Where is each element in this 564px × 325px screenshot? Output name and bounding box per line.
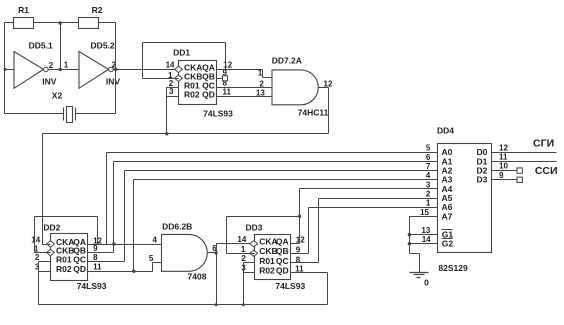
svg-text:74LS93: 74LS93 (77, 281, 107, 291)
svg-text:13: 13 (256, 89, 265, 98)
wire DD2 QA output to gate input 4 (88, 244, 162, 246)
wire to DD5.1 input (5, 69, 15, 71)
svg-text:2: 2 (426, 189, 431, 198)
svg-text:DD3: DD3 (245, 223, 262, 233)
svg-text:R02: R02 (184, 89, 200, 99)
svg-text:3: 3 (426, 180, 431, 189)
wire DD1 feedback left down (142, 43, 144, 79)
node DD1 reset junction (165, 132, 168, 135)
svg-text:X2: X2 (52, 90, 63, 100)
svg-text:7: 7 (426, 162, 431, 171)
svg-text:14: 14 (31, 235, 40, 244)
wire A6 feed vertical (308, 208, 310, 254)
wire DD2 QC output (88, 261, 125, 263)
svg-text:DD1: DD1 (173, 48, 190, 58)
wire DD2 feedback left down (34, 217, 36, 253)
svg-text:10: 10 (499, 162, 508, 171)
svg-text:0: 0 (424, 277, 429, 287)
svg-text:15: 15 (420, 208, 429, 217)
wire DD2 CKA input (43, 244, 51, 246)
ground (410, 273, 430, 288)
svg-text:INV: INV (42, 76, 57, 86)
inverter DD5.1 (14, 40, 57, 88)
svg-text:G2: G2 (442, 239, 454, 249)
node DD3 QA feedback junction (298, 215, 301, 218)
wire A1 feed vertical (113, 162, 115, 253)
wire bottom reset line (39, 304, 328, 306)
svg-text:5: 5 (149, 254, 154, 263)
counter DD3 74LS93 (245, 223, 305, 292)
node G2 junction (408, 242, 411, 245)
wire DD6 output to DD3 CKA (217, 243, 255, 245)
wire address line A4 (300, 188, 438, 190)
wire address line A5 (319, 198, 438, 200)
svg-text:QB: QB (276, 246, 289, 256)
svg-text:5: 5 (426, 144, 431, 153)
svg-text:14: 14 (237, 235, 246, 244)
svg-text:8: 8 (93, 253, 98, 262)
resistor R1 (14, 5, 34, 29)
svg-text:DD4: DD4 (437, 126, 454, 136)
svg-text:14: 14 (422, 235, 431, 244)
wire DD7.2A output down (328, 88, 330, 134)
wire A5 feed vertical (318, 199, 320, 263)
svg-text:R02: R02 (259, 265, 275, 275)
wire address line A1 (114, 161, 438, 163)
node oscillator output (114, 68, 117, 71)
wire into gate input 5 (153, 262, 162, 264)
wire DD3 reset vertical down (243, 263, 245, 305)
wire crystal left (5, 113, 64, 115)
svg-text:3: 3 (35, 263, 40, 272)
wire DD6.2B output (208, 252, 217, 254)
svg-text:1: 1 (258, 68, 263, 77)
inverter DD5.2 (79, 40, 120, 88)
wire DD5.1 out to DD5.2 in (49, 69, 79, 71)
svg-text:R2: R2 (92, 5, 103, 15)
wire DD1 QA output (217, 69, 263, 71)
wire DD3 CKB loop top (227, 216, 300, 218)
svg-text:D3: D3 (477, 175, 488, 185)
node feedback mid (59, 68, 62, 71)
svg-text:DD5.1: DD5.1 (29, 40, 53, 50)
svg-text:82S129: 82S129 (438, 263, 468, 273)
svg-text:QD: QD (276, 265, 289, 275)
wire DD2 feedback top (35, 216, 98, 218)
wire R1-R2 node down (60, 23, 62, 70)
wire DD1 feedback top (143, 42, 226, 44)
wire R2 right (99, 22, 116, 24)
wire DD2 QD output to gate input 5 (88, 271, 153, 273)
node DD6 output junction (214, 251, 217, 254)
open pin square D3 (517, 177, 522, 182)
wire R1 to R2 (34, 22, 79, 24)
svg-text:13: 13 (421, 226, 430, 235)
node inverter DD5.1 input (4, 68, 7, 71)
wire DD2 CKB input (35, 252, 51, 254)
crystal X2 (52, 90, 76, 122)
svg-text:2: 2 (35, 253, 40, 262)
wire address line A2 (125, 170, 438, 172)
svg-text:74LS93: 74LS93 (275, 281, 305, 291)
wire DD6 output jog up (216, 244, 218, 253)
wire ground bracket vertical (409, 217, 411, 254)
wire A4 feed vertical (299, 189, 301, 244)
wire DD1 QB stub (217, 78, 223, 80)
wire gate input 5 jog up (152, 263, 154, 272)
node DD3 reset junction (242, 303, 245, 306)
svg-text:74HC11: 74HC11 (298, 107, 329, 117)
svg-text:14: 14 (166, 60, 175, 69)
svg-text:11: 11 (295, 264, 304, 273)
svg-text:4: 4 (153, 235, 158, 244)
svg-text:11: 11 (499, 153, 508, 162)
svg-text:2: 2 (259, 80, 264, 89)
wire DD1 QC to gate input 2 (217, 87, 273, 89)
open pin square DD1 QB (223, 76, 228, 81)
wire DD3 R02 stub (244, 272, 255, 274)
svg-text:12: 12 (324, 79, 333, 88)
wire into gate input 1 (263, 77, 273, 79)
node G1 junction (408, 233, 411, 236)
svg-text:7408: 7408 (188, 271, 207, 281)
wire DD3 CKB loop up (226, 217, 228, 254)
wire left vertical rail (4, 23, 6, 114)
node DD6 output reset junction (215, 303, 218, 306)
svg-text:СГИ: СГИ (533, 138, 554, 150)
svg-text:R01: R01 (259, 256, 275, 266)
svg-text:QD: QD (202, 89, 215, 99)
wire A3 feed vertical (133, 180, 135, 272)
wire DD1 reset vertical (166, 88, 168, 134)
wire DD6 output down to reset line (216, 253, 218, 305)
svg-text:1: 1 (64, 61, 69, 70)
svg-text:QC: QC (73, 255, 86, 265)
node junction R1-R2 (59, 21, 62, 24)
wire D0 output SGI (492, 152, 557, 154)
svg-text:R02: R02 (56, 264, 72, 274)
wire DD1 R02 stub (167, 96, 179, 98)
wire down to DD2 CKA (42, 134, 44, 245)
svg-text:1: 1 (241, 245, 246, 254)
wire DD3 QD down to reset line (327, 273, 329, 305)
counter DD2 74LS93 (43, 223, 106, 292)
svg-text:74LS93: 74LS93 (203, 108, 233, 118)
wire ground stem (419, 254, 421, 273)
wire crystal right (76, 113, 116, 115)
svg-text:11: 11 (93, 263, 102, 272)
wire address line A3 (134, 179, 438, 181)
wire reset line to DD1 and DD2 clock (43, 133, 329, 135)
wire DD2 R02 stub (39, 271, 51, 273)
wire DD5.2 output to DD1 CKA (114, 69, 179, 71)
wire G2 input (410, 243, 438, 245)
wire A0 feed vertical (106, 153, 108, 245)
svg-text:QC: QC (276, 256, 289, 266)
wire DD7.2A output (319, 87, 329, 89)
wire D3 output (492, 179, 517, 181)
svg-text:R1: R1 (18, 5, 29, 15)
resistor R2 (79, 5, 103, 29)
wire top rail left (5, 22, 14, 24)
svg-text:CKB: CKB (259, 246, 277, 256)
wire bracket to ground stem (410, 253, 420, 255)
wire DD3 QC output (291, 262, 319, 264)
wire DD1 QA feedback up (225, 43, 227, 70)
wire A2 feed vertical (124, 171, 126, 262)
open pin square D2 (517, 168, 522, 173)
svg-text:DD7.2A: DD7.2A (272, 56, 302, 66)
svg-text:INV: INV (106, 76, 121, 86)
svg-text:QA: QA (276, 237, 289, 247)
wire G1 input (410, 234, 438, 236)
svg-text:DD6.2B: DD6.2B (162, 222, 192, 232)
svg-text:9: 9 (499, 171, 504, 180)
wire DD3 CKB loop left (227, 253, 255, 255)
wire DD1 QD to gate input 13 (217, 96, 273, 98)
wire DD3 QB output (291, 253, 309, 255)
counter DD1 74LS93 (173, 48, 233, 119)
wire right vertical rail (115, 23, 117, 114)
svg-text:QD: QD (73, 264, 86, 274)
svg-text:9: 9 (93, 244, 98, 253)
svg-text:A7: A7 (442, 211, 453, 221)
wire address line A6 (309, 207, 438, 209)
svg-text:4: 4 (426, 171, 431, 180)
svg-text:12: 12 (499, 143, 508, 152)
wire DD2 reset vertical down (38, 262, 40, 305)
svg-text:R01: R01 (56, 255, 72, 265)
node QD branch to A3 (132, 270, 135, 273)
wire address line A0 (107, 152, 438, 154)
wire D2 output (492, 170, 517, 172)
wire DD3 QD output (291, 272, 328, 274)
wire DD2 QB output (88, 252, 114, 254)
wire DD3 QA output (291, 243, 300, 245)
svg-text:1: 1 (426, 199, 431, 208)
svg-text:3: 3 (169, 87, 174, 96)
svg-text:DD2: DD2 (43, 223, 60, 233)
svg-text:CKA: CKA (259, 237, 277, 247)
node QB branch to gate input 4 (112, 242, 115, 245)
svg-text:11: 11 (223, 87, 232, 96)
wire DD2 QA feedback up (97, 217, 99, 245)
PROM DD4 82S129 (437, 126, 492, 273)
AND gate DD7.2A 74HC11 (272, 56, 329, 118)
wire QA jog down to gate input 1 (262, 70, 264, 78)
wire D1 output (492, 161, 557, 163)
svg-text:ССИ: ССИ (535, 165, 558, 177)
svg-text:DD5.2: DD5.2 (91, 40, 115, 50)
wire A7 to ground bracket (410, 216, 438, 218)
svg-text:6: 6 (426, 153, 431, 162)
wire DD1 R01 stub (167, 87, 179, 89)
AND gate DD6.2B 7408 (162, 222, 208, 282)
wire DD1 CKB input (143, 78, 179, 80)
wire DD3 R01 stub (244, 262, 255, 264)
svg-text:2: 2 (241, 254, 246, 263)
wire DD2 R01 stub (39, 261, 51, 263)
svg-text:2: 2 (49, 61, 54, 70)
